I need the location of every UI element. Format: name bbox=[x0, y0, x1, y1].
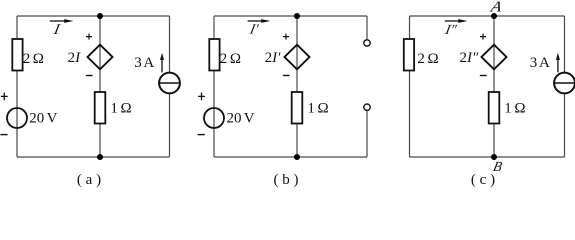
wire right lower stub (b) bbox=[366, 110, 368, 157]
dependent source diamond 2I' (b) bbox=[285, 45, 310, 70]
caption (b) bbox=[274, 172, 299, 188]
caption (a) bbox=[77, 172, 101, 188]
current direction arrow of 3A source (a) bbox=[160, 53, 164, 73]
dependent source diamond 2I'' (c) bbox=[482, 45, 507, 70]
label I'' (c) bbox=[443, 22, 459, 38]
svg-text:2I″: 2I″ bbox=[460, 50, 479, 66]
wire bottom (b) bbox=[214, 156, 367, 158]
wire bottom (c) bbox=[410, 156, 565, 158]
wire bottom (a) bbox=[17, 156, 170, 158]
value label 2 ohm (c) bbox=[417, 51, 438, 67]
value label 2I (a) bbox=[68, 50, 82, 66]
current direction arrow of 3A source (c) bbox=[556, 53, 560, 73]
node label A (c) bbox=[488, 0, 504, 15]
value label 20 V (b) bbox=[227, 111, 255, 127]
current arrow I'' (c) bbox=[445, 19, 468, 23]
wire middle branch (a) bbox=[99, 16, 101, 157]
value label 3 A (c) bbox=[530, 55, 550, 71]
minus sign of dependent source (b) bbox=[283, 75, 290, 77]
label I' (b) bbox=[248, 22, 261, 38]
value label 20 V (a) bbox=[29, 111, 57, 127]
junction node top (b) bbox=[294, 13, 300, 19]
svg-text:1 Ω: 1 Ω bbox=[504, 101, 525, 117]
terminal upper (b) bbox=[364, 40, 370, 46]
value label 2I' (b) bbox=[265, 50, 281, 66]
plus sign of dependent source (c) bbox=[480, 34, 486, 40]
wire left (c) bbox=[409, 16, 411, 157]
label I (a) bbox=[52, 21, 62, 38]
voltage source 20V circle (a) bbox=[7, 108, 27, 128]
wire right (a) bbox=[169, 16, 171, 157]
minus sign of 20V source (a) bbox=[0, 134, 7, 136]
plus sign of dependent source (a) bbox=[86, 34, 92, 40]
resistor 1 ohm (b) bbox=[292, 92, 303, 124]
resistor 2 ohm (b) bbox=[209, 39, 219, 71]
plus sign of 20V source (a) bbox=[1, 93, 8, 101]
voltage source 20V circle (b) bbox=[204, 108, 224, 128]
junction node bottom (a) bbox=[97, 154, 103, 160]
svg-text:2 Ω: 2 Ω bbox=[220, 51, 241, 67]
wire top (c) bbox=[410, 15, 565, 17]
value label 2I'' (c) bbox=[460, 50, 479, 66]
value label 2 ohm (a) bbox=[23, 51, 44, 67]
current source 3A circle (a) bbox=[159, 73, 180, 94]
svg-text:2 Ω: 2 Ω bbox=[417, 51, 438, 67]
svg-text:20 V: 20 V bbox=[29, 111, 57, 127]
minus sign of dependent source (a) bbox=[86, 75, 93, 77]
junction node top (a) bbox=[97, 13, 103, 19]
svg-text:2I: 2I bbox=[68, 50, 82, 66]
resistor 1 ohm (a) bbox=[95, 92, 106, 124]
node label B (c) bbox=[492, 159, 504, 175]
svg-text:( b ): ( b ) bbox=[274, 172, 299, 188]
wire left (a) bbox=[16, 16, 18, 157]
terminal lower (b) bbox=[364, 104, 370, 110]
dependent source diamond 2I (a) bbox=[88, 45, 113, 70]
resistor 1 ohm (c) bbox=[489, 92, 500, 124]
wire right upper stub (b) bbox=[366, 16, 368, 40]
value label 1 ohm (a) bbox=[110, 101, 131, 117]
svg-text:2 Ω: 2 Ω bbox=[23, 51, 44, 67]
wire middle branch (c) bbox=[493, 16, 495, 157]
resistor 2 ohm (a) bbox=[12, 39, 22, 71]
wire left (b) bbox=[213, 16, 215, 157]
value label 3 A (a) bbox=[134, 55, 154, 71]
junction node bottom (b) bbox=[294, 154, 300, 160]
wire top (b) bbox=[214, 15, 367, 17]
resistor 2 ohm (c) bbox=[404, 39, 414, 71]
minus sign of dependent source (c) bbox=[480, 75, 487, 77]
wire middle branch (b) bbox=[296, 16, 298, 157]
node A (c) bbox=[491, 13, 497, 19]
current arrow I' (b) bbox=[248, 19, 271, 23]
svg-text:2I′: 2I′ bbox=[265, 50, 281, 66]
svg-text:1 Ω: 1 Ω bbox=[110, 101, 131, 117]
current source 3A circle (c) bbox=[554, 73, 575, 94]
wire top (a) bbox=[17, 15, 170, 17]
svg-text:1 Ω: 1 Ω bbox=[307, 101, 328, 117]
plus sign of 20V source (b) bbox=[198, 93, 205, 101]
node B (c) bbox=[491, 154, 497, 160]
svg-text:3 A: 3 A bbox=[530, 55, 550, 71]
caption (c) bbox=[471, 172, 495, 188]
value label 1 ohm (c) bbox=[504, 101, 525, 117]
svg-text:( a ): ( a ) bbox=[77, 172, 101, 188]
svg-text:3 A: 3 A bbox=[134, 55, 154, 71]
svg-text:( c ): ( c ) bbox=[471, 172, 495, 188]
wire right (c) bbox=[564, 16, 566, 157]
current arrow I (a) bbox=[50, 19, 74, 23]
value label 1 ohm (b) bbox=[307, 101, 328, 117]
svg-text:20 V: 20 V bbox=[227, 111, 255, 127]
plus sign of dependent source (b) bbox=[283, 34, 289, 40]
value label 2 ohm (b) bbox=[220, 51, 241, 67]
minus sign of 20V source (b) bbox=[198, 134, 205, 136]
